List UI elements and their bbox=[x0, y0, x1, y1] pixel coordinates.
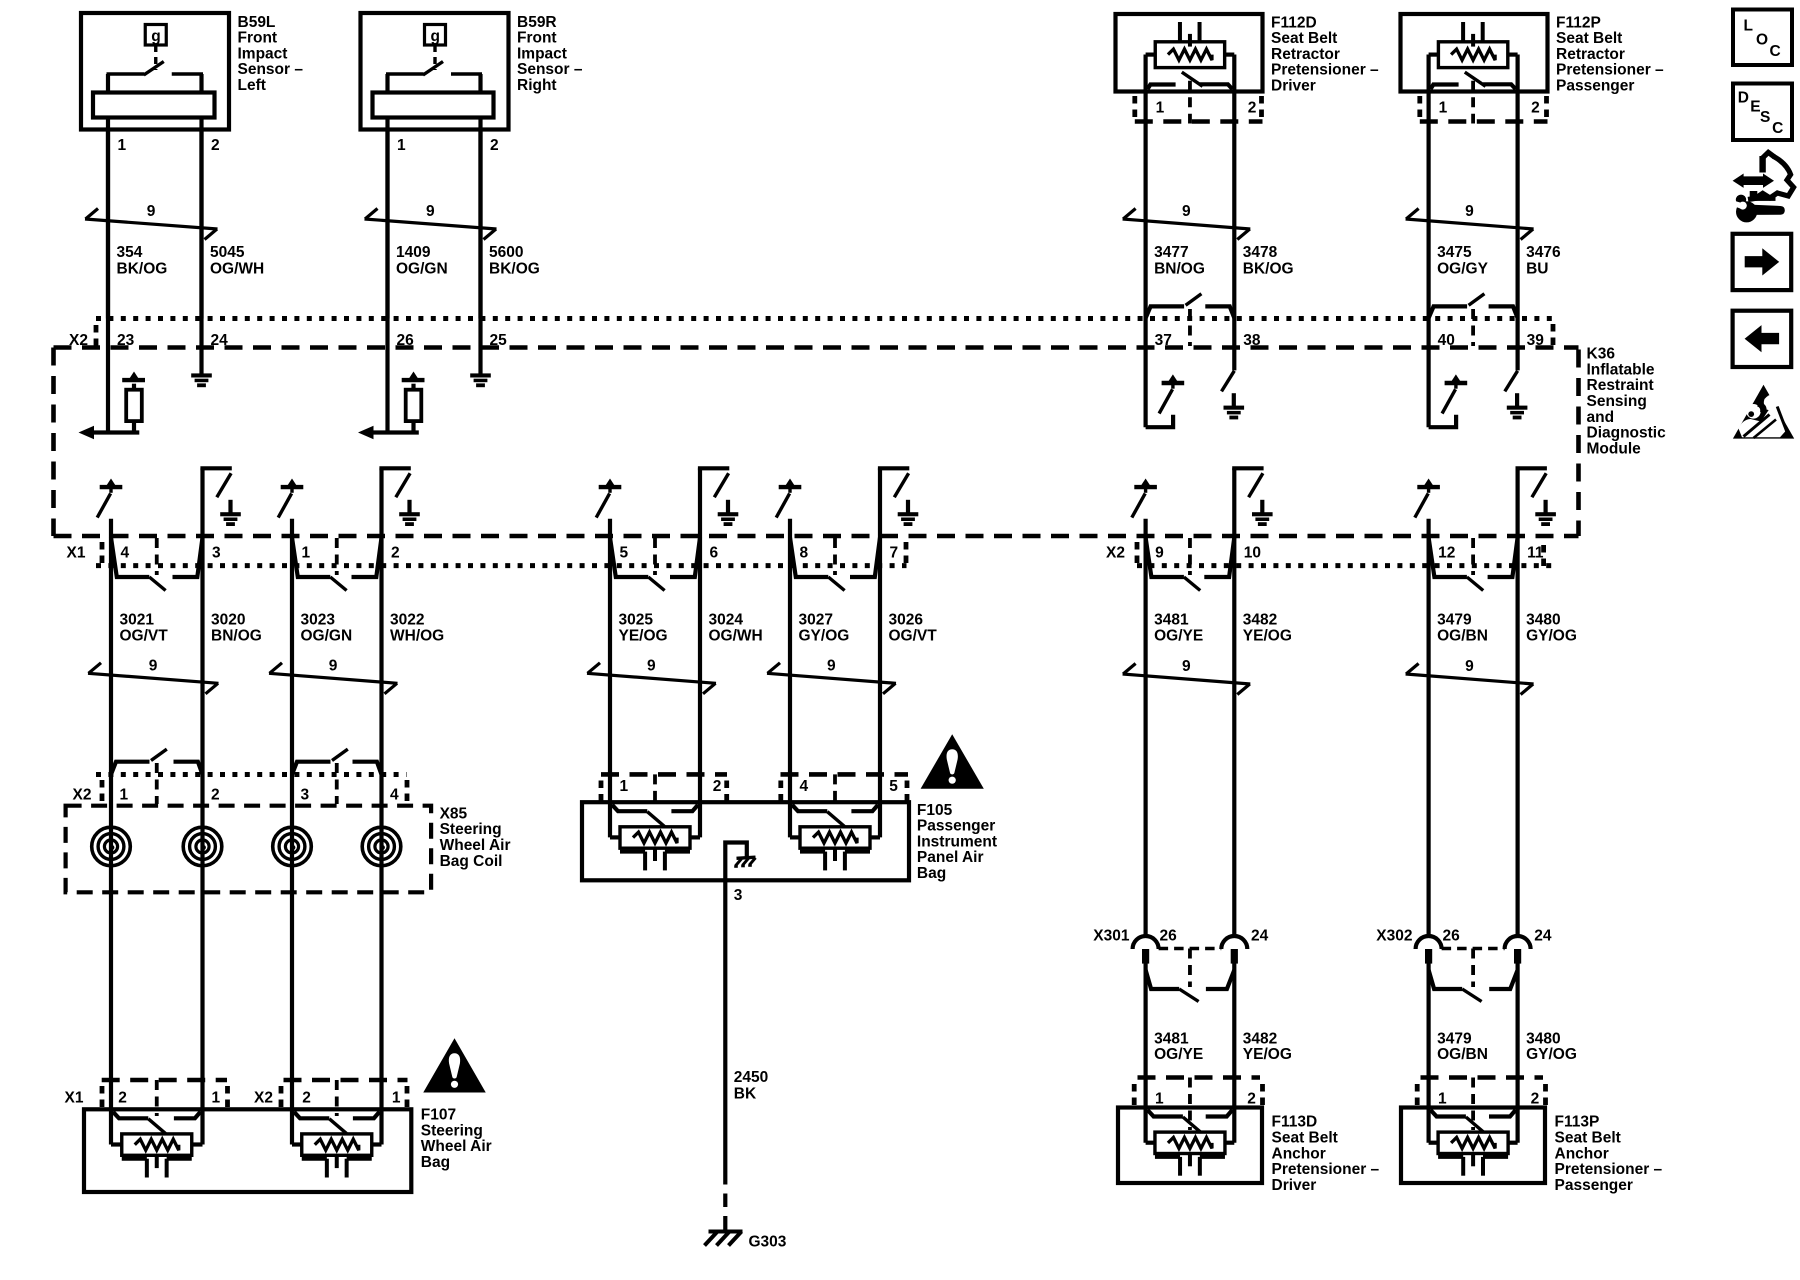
dashed ground lead bbox=[723, 1171, 727, 1233]
wire 3481 OG/YE lower bbox=[1143, 964, 1147, 1143]
B59R dashed actuator link bbox=[433, 45, 436, 70]
svg-text:3026: 3026 bbox=[889, 611, 924, 628]
svg-text:OG/YE: OG/YE bbox=[1154, 628, 1203, 645]
svg-text:YE/OG: YE/OG bbox=[1243, 1046, 1292, 1063]
wire 5045 OG/WH bbox=[199, 130, 203, 362]
F107 mechanical links bbox=[155, 1080, 159, 1116]
svg-text:3477: 3477 bbox=[1154, 244, 1188, 261]
svg-text:2: 2 bbox=[302, 1090, 311, 1107]
svg-text:OG/VT: OG/VT bbox=[120, 628, 169, 645]
mechanical link dashes pins 12-11 bbox=[1471, 538, 1475, 575]
svg-text:4: 4 bbox=[121, 545, 130, 562]
ground at pin 25 bbox=[470, 361, 491, 387]
svg-text:Pretensioner –: Pretensioner – bbox=[1271, 62, 1379, 79]
svg-text:X2: X2 bbox=[73, 787, 92, 804]
warning symbol F107 bbox=[423, 1038, 486, 1092]
wire 354 BK/OG bbox=[106, 130, 110, 433]
seat belt anchor pretensioner F113D box bbox=[1118, 1108, 1262, 1184]
icon arrow left box bbox=[1733, 311, 1792, 367]
svg-text:3479: 3479 bbox=[1437, 1030, 1472, 1047]
connector X1 edge mark left bbox=[100, 542, 105, 564]
svg-text:X1: X1 bbox=[67, 545, 86, 562]
F113P mechanical link bbox=[1471, 1078, 1475, 1131]
svg-text:4: 4 bbox=[390, 787, 399, 804]
shorting clip pins 12-11 bbox=[1429, 538, 1518, 591]
module K36 right border bbox=[1576, 350, 1581, 537]
ground bbox=[1252, 500, 1273, 526]
svg-text:2: 2 bbox=[713, 778, 722, 795]
svg-text:5: 5 bbox=[620, 545, 629, 562]
svg-text:37: 37 bbox=[1155, 332, 1172, 349]
B59L connector bar bbox=[93, 93, 215, 118]
svg-text:O: O bbox=[1756, 31, 1768, 48]
module switch to ground bbox=[700, 468, 729, 497]
warning symbol F105 bbox=[921, 734, 984, 789]
shorting clip pins 4-3 bbox=[111, 538, 203, 591]
svg-text:WH/OG: WH/OG bbox=[390, 628, 444, 645]
F107 squib 2 bbox=[292, 1112, 382, 1178]
svg-text:Sensor –: Sensor – bbox=[238, 61, 304, 78]
svg-text:3022: 3022 bbox=[390, 611, 424, 628]
X85 connector edge marks bbox=[100, 780, 105, 802]
module ground switch at pin 39 bbox=[1505, 371, 1518, 392]
F105 connector dashed lines bbox=[601, 772, 727, 777]
shorting clip X85 pins 3-4 bbox=[292, 749, 382, 774]
wire 3476 BU bbox=[1515, 319, 1519, 371]
svg-text:B59R: B59R bbox=[517, 14, 557, 31]
svg-text:23: 23 bbox=[117, 332, 135, 349]
module switch to feed bbox=[1132, 479, 1157, 518]
svg-text:F105: F105 bbox=[917, 802, 953, 819]
svg-text:3: 3 bbox=[212, 545, 221, 562]
module switch to feed bbox=[97, 479, 122, 518]
ground bbox=[1224, 393, 1245, 419]
svg-text:BN/OG: BN/OG bbox=[211, 628, 262, 645]
svg-text:26: 26 bbox=[397, 332, 415, 349]
svg-text:X2: X2 bbox=[69, 332, 88, 349]
svg-text:3481: 3481 bbox=[1154, 1030, 1189, 1047]
X301 shorting clip bbox=[1146, 970, 1235, 1002]
mechanical link dashes pins 5-6 bbox=[653, 538, 657, 575]
svg-text:Retractor: Retractor bbox=[1556, 46, 1625, 63]
svg-text:2: 2 bbox=[1248, 100, 1257, 117]
connector X2 bottom edge mark left bbox=[1135, 542, 1140, 564]
svg-text:Panel Air: Panel Air bbox=[917, 849, 984, 866]
wire 3022 WH/OG bbox=[379, 468, 383, 1144]
svg-text:24: 24 bbox=[1251, 928, 1269, 945]
svg-text:Passenger: Passenger bbox=[917, 818, 995, 835]
module resistor and feed for pin 23 bbox=[79, 372, 146, 440]
svg-text:9: 9 bbox=[1465, 658, 1474, 675]
connector X2 (top row) right edge mark bbox=[1551, 324, 1556, 346]
X302 dashed connector line bbox=[1442, 947, 1505, 951]
X302 terminal 26 bbox=[1416, 936, 1442, 949]
svg-text:3: 3 bbox=[734, 887, 743, 904]
F105 connector mechanical links bbox=[653, 774, 657, 806]
B59R internal wire 2 bbox=[478, 74, 482, 319]
wire gauge marker 9 bbox=[269, 658, 398, 694]
svg-text:X1: X1 bbox=[65, 1090, 84, 1107]
svg-text:2: 2 bbox=[118, 1090, 127, 1107]
svg-text:Left: Left bbox=[238, 77, 266, 94]
module switch to ground bbox=[382, 468, 411, 497]
svg-text:OG/WH: OG/WH bbox=[210, 260, 264, 277]
svg-text:2: 2 bbox=[490, 137, 499, 154]
svg-text:C: C bbox=[1772, 120, 1783, 137]
svg-text:Anchor: Anchor bbox=[1555, 1145, 1609, 1162]
svg-text:11: 11 bbox=[1527, 545, 1544, 562]
svg-text:2: 2 bbox=[1531, 1091, 1540, 1108]
F113D squib bbox=[1146, 1110, 1235, 1176]
svg-text:Diagnostic: Diagnostic bbox=[1587, 425, 1667, 442]
svg-text:BN/OG: BN/OG bbox=[1154, 260, 1205, 277]
svg-text:354: 354 bbox=[117, 244, 143, 261]
svg-text:12: 12 bbox=[1438, 545, 1455, 562]
svg-text:1409: 1409 bbox=[396, 244, 431, 261]
module switch to feed bbox=[1442, 374, 1467, 413]
svg-text:2: 2 bbox=[211, 137, 220, 154]
icon DESC box bbox=[1733, 84, 1792, 141]
svg-text:OG/WH: OG/WH bbox=[709, 628, 763, 645]
module K36 top border bbox=[54, 345, 1579, 350]
svg-text:L: L bbox=[1744, 18, 1753, 35]
steering wheel air bag F107 box bbox=[84, 1109, 411, 1192]
svg-text:9: 9 bbox=[827, 658, 836, 675]
coil bbox=[183, 827, 222, 866]
mechanical link dashes pins 4-3 bbox=[155, 538, 159, 575]
module switch to feed bbox=[278, 479, 303, 518]
module feed switch at pin 40 bbox=[1429, 415, 1457, 428]
mechanical link dashes pins 40-39 bbox=[1471, 309, 1475, 346]
svg-text:1: 1 bbox=[392, 1090, 401, 1107]
F112D wire 1 bbox=[1143, 55, 1147, 319]
icon connector tool (arrows and wrench) bbox=[1733, 152, 1794, 222]
svg-text:5045: 5045 bbox=[210, 244, 245, 261]
wire 3025 YE/OG bbox=[608, 519, 612, 838]
svg-text:X301: X301 bbox=[1093, 928, 1130, 945]
F107 connector edge marks bbox=[100, 1086, 105, 1108]
svg-text:7: 7 bbox=[890, 545, 899, 562]
svg-text:Pretensioner –: Pretensioner – bbox=[1556, 62, 1664, 79]
wire 3482 YE/OG upper bbox=[1232, 468, 1236, 936]
wire gauge marker 9 bbox=[1123, 658, 1251, 694]
svg-text:Front: Front bbox=[238, 30, 278, 47]
svg-text:3475: 3475 bbox=[1437, 244, 1472, 261]
wire 3481 OG/YE upper bbox=[1143, 519, 1147, 937]
svg-text:Seat Belt: Seat Belt bbox=[1271, 30, 1337, 47]
shorting clip pins 40-39 bbox=[1429, 294, 1518, 318]
svg-text:25: 25 bbox=[490, 332, 508, 349]
connector X1 edge mark right bbox=[904, 542, 909, 564]
shorting clip X85 pins 1-2 bbox=[111, 749, 203, 774]
svg-text:Pretensioner –: Pretensioner – bbox=[1555, 1161, 1663, 1178]
wire 2450 BK bbox=[723, 880, 727, 1171]
svg-text:26: 26 bbox=[1443, 928, 1461, 945]
svg-text:Module: Module bbox=[1587, 440, 1642, 457]
svg-text:g: g bbox=[431, 28, 440, 45]
svg-text:3480: 3480 bbox=[1526, 1030, 1560, 1047]
svg-text:OG/GY: OG/GY bbox=[1437, 260, 1488, 277]
wire 3475 OG/GY bbox=[1426, 319, 1430, 428]
svg-text:BK/OG: BK/OG bbox=[117, 260, 168, 277]
wire gauge marker 9 bbox=[1406, 658, 1534, 694]
svg-text:9: 9 bbox=[1155, 545, 1164, 562]
svg-text:OG/BN: OG/BN bbox=[1437, 1046, 1488, 1063]
F112P wire 2 bbox=[1515, 55, 1519, 319]
F107 squib 1 bbox=[111, 1112, 203, 1178]
module resistor and feed for pin 26 bbox=[358, 372, 425, 440]
svg-text:1: 1 bbox=[120, 787, 129, 804]
svg-text:X2: X2 bbox=[254, 1090, 273, 1107]
svg-text:D: D bbox=[1738, 89, 1749, 106]
X301 dashed connector line bbox=[1159, 947, 1222, 951]
svg-text:3480: 3480 bbox=[1526, 611, 1560, 628]
svg-text:g: g bbox=[151, 28, 160, 45]
svg-text:S: S bbox=[1760, 109, 1770, 126]
svg-text:24: 24 bbox=[211, 332, 229, 349]
svg-text:and: and bbox=[1587, 409, 1615, 426]
module switch to feed bbox=[1159, 374, 1184, 413]
svg-text:9: 9 bbox=[426, 203, 435, 220]
svg-text:3482: 3482 bbox=[1243, 611, 1277, 628]
svg-text:X85: X85 bbox=[440, 805, 468, 822]
wire gauge marker 9 bbox=[1123, 203, 1251, 239]
ground bbox=[220, 500, 241, 526]
svg-text:Sensing: Sensing bbox=[1587, 393, 1647, 410]
F105 internal ground wire pin 3 bbox=[725, 843, 747, 881]
wire 3021 OG/VT bbox=[109, 519, 113, 1145]
svg-text:26: 26 bbox=[1160, 928, 1178, 945]
wire gauge marker 9 bbox=[767, 658, 896, 694]
svg-text:BK/OG: BK/OG bbox=[1243, 260, 1294, 277]
svg-text:Seat Belt: Seat Belt bbox=[1555, 1130, 1621, 1147]
connector X1 (bottom row) dotted line bbox=[96, 563, 907, 568]
svg-text:4: 4 bbox=[800, 778, 809, 795]
svg-text:40: 40 bbox=[1438, 332, 1455, 349]
svg-text:3021: 3021 bbox=[120, 611, 155, 628]
ground G303 bbox=[705, 1232, 743, 1246]
svg-text:GY/OG: GY/OG bbox=[1526, 628, 1577, 645]
wire gauge marker 9 bbox=[587, 658, 716, 694]
svg-text:Right: Right bbox=[517, 77, 557, 94]
svg-text:Impact: Impact bbox=[517, 45, 567, 62]
svg-text:6: 6 bbox=[710, 545, 719, 562]
module switch to ground bbox=[1518, 468, 1547, 497]
front impact sensor B59L box bbox=[81, 13, 229, 130]
svg-text:X2: X2 bbox=[1106, 545, 1125, 562]
svg-text:Driver: Driver bbox=[1271, 78, 1316, 95]
connector X2 of X85 dotted line bbox=[96, 772, 407, 777]
wire 3478 BK/OG bbox=[1232, 319, 1236, 371]
svg-text:3478: 3478 bbox=[1243, 244, 1278, 261]
svg-text:1: 1 bbox=[302, 545, 311, 562]
svg-text:Anchor: Anchor bbox=[1272, 1145, 1326, 1162]
svg-text:F113P: F113P bbox=[1555, 1114, 1600, 1131]
shorting clip pins 8-7 bbox=[790, 538, 880, 591]
shorting clip pins 5-6 bbox=[610, 538, 700, 591]
svg-text:F107: F107 bbox=[421, 1107, 456, 1124]
ground bbox=[718, 500, 739, 526]
F107 connector dashed lines bbox=[102, 1078, 227, 1083]
B59L internal wire 2 bbox=[199, 74, 203, 319]
ground bbox=[1535, 500, 1556, 526]
svg-text:1: 1 bbox=[397, 137, 406, 154]
svg-text:F113D: F113D bbox=[1272, 1114, 1318, 1131]
svg-text:24: 24 bbox=[1534, 928, 1552, 945]
F113P connector dashed line bbox=[1421, 1075, 1544, 1080]
svg-text:Bag: Bag bbox=[421, 1154, 450, 1171]
svg-text:Passenger: Passenger bbox=[1556, 78, 1634, 95]
svg-text:9: 9 bbox=[1182, 203, 1191, 220]
wire 3026 OG/VT bbox=[878, 468, 882, 837]
B59R internal wire 1 bbox=[385, 74, 389, 319]
wire gauge marker 9 bbox=[1406, 203, 1534, 239]
X302 terminal 24 bbox=[1505, 936, 1531, 949]
B59L sensor switch bbox=[107, 72, 145, 75]
F112D pretensioner squib bbox=[1146, 22, 1235, 89]
svg-text:OG/GN: OG/GN bbox=[301, 628, 353, 645]
svg-text:Steering: Steering bbox=[421, 1122, 483, 1139]
F112P connector dashed link bbox=[1471, 81, 1475, 124]
svg-text:GY/OG: GY/OG bbox=[799, 628, 850, 645]
svg-text:9: 9 bbox=[1465, 203, 1474, 220]
svg-text:2: 2 bbox=[1247, 1091, 1256, 1108]
svg-text:Wheel Air: Wheel Air bbox=[421, 1138, 492, 1155]
F112P pretensioner squib bbox=[1429, 22, 1518, 89]
wire 3482 YE/OG lower bbox=[1232, 964, 1236, 1143]
svg-text:3024: 3024 bbox=[709, 611, 744, 628]
F112P wire 1 bbox=[1426, 55, 1430, 319]
svg-text:Seat Belt: Seat Belt bbox=[1272, 1130, 1338, 1147]
svg-text:1: 1 bbox=[1156, 100, 1165, 117]
F112D connector edge marks bbox=[1132, 96, 1137, 118]
wire 3480 GY/OG lower bbox=[1515, 964, 1519, 1143]
svg-text:F112D: F112D bbox=[1271, 14, 1317, 31]
svg-text:1: 1 bbox=[1438, 1091, 1447, 1108]
svg-text:3027: 3027 bbox=[799, 611, 833, 628]
svg-text:3482: 3482 bbox=[1243, 1030, 1277, 1047]
svg-text:Inflatable: Inflatable bbox=[1587, 361, 1655, 378]
mechanical link dashes pins 8-7 bbox=[833, 538, 837, 575]
svg-text:1: 1 bbox=[1155, 1091, 1164, 1108]
module K36 bottom border bbox=[54, 534, 1579, 539]
wire 3027 GY/OG bbox=[788, 519, 792, 838]
svg-text:3025: 3025 bbox=[619, 611, 654, 628]
svg-text:2450: 2450 bbox=[734, 1069, 768, 1086]
svg-text:GY/OG: GY/OG bbox=[1526, 1046, 1577, 1063]
svg-text:8: 8 bbox=[800, 545, 809, 562]
ground bbox=[898, 500, 919, 526]
coil bbox=[92, 827, 131, 866]
svg-text:OG/BN: OG/BN bbox=[1437, 628, 1488, 645]
F112D connector dashed link bbox=[1188, 81, 1192, 124]
svg-text:Seat Belt: Seat Belt bbox=[1556, 30, 1622, 47]
B59R accelerometer g symbol bbox=[425, 25, 446, 46]
connector X2 (top row) edge mark bbox=[94, 325, 99, 347]
F113D connector edge marks bbox=[1132, 1084, 1137, 1106]
svg-text:Retractor: Retractor bbox=[1271, 46, 1340, 63]
X301 mechanical link bbox=[1188, 949, 1192, 988]
seat belt retractor pretensioner F112D box bbox=[1116, 14, 1263, 92]
svg-text:C: C bbox=[1770, 43, 1781, 60]
svg-text:Impact: Impact bbox=[238, 45, 288, 62]
svg-text:3479: 3479 bbox=[1437, 611, 1472, 628]
svg-text:38: 38 bbox=[1243, 332, 1261, 349]
ground bbox=[1507, 393, 1528, 419]
module switch to feed bbox=[776, 479, 801, 518]
X85 steering wheel air bag coil dashed box bbox=[66, 806, 432, 893]
mechanical link dashes pins 1-2 bbox=[335, 538, 339, 575]
mechanical link dashes pins 37-38 bbox=[1188, 309, 1192, 346]
module ground switch at pin 38 bbox=[1222, 371, 1235, 392]
svg-text:BK: BK bbox=[734, 1085, 757, 1102]
svg-text:BK/OG: BK/OG bbox=[489, 260, 540, 277]
svg-text:OG/YE: OG/YE bbox=[1154, 1046, 1203, 1063]
ground bbox=[399, 500, 420, 526]
svg-text:YE/OG: YE/OG bbox=[1243, 628, 1292, 645]
svg-text:2: 2 bbox=[211, 787, 220, 804]
X301 terminal 26 bbox=[1133, 936, 1159, 949]
svg-text:1: 1 bbox=[620, 778, 629, 795]
B59L internal wire 1 bbox=[106, 74, 110, 319]
svg-text:YE/OG: YE/OG bbox=[619, 628, 668, 645]
wire 3024 OG/WH bbox=[698, 468, 702, 837]
F113P squib bbox=[1429, 1110, 1518, 1176]
svg-text:1: 1 bbox=[1439, 100, 1448, 117]
svg-text:B59L: B59L bbox=[238, 14, 276, 31]
shorting clip pins 1-2 bbox=[292, 538, 382, 591]
coil bbox=[273, 827, 312, 866]
connector X2 (bottom row right) dotted line bbox=[1137, 563, 1552, 568]
svg-text:Wheel Air: Wheel Air bbox=[440, 837, 511, 854]
svg-text:Passenger: Passenger bbox=[1555, 1177, 1633, 1194]
svg-text:OG/GN: OG/GN bbox=[396, 260, 448, 277]
svg-text:BU: BU bbox=[1526, 260, 1548, 277]
B59R connector bar bbox=[373, 93, 494, 118]
svg-text:9: 9 bbox=[147, 203, 156, 220]
wire 3480 GY/OG upper bbox=[1515, 468, 1519, 936]
F112P connector bottom dashed line bbox=[1420, 119, 1548, 124]
F113D mechanical link bbox=[1188, 1078, 1192, 1131]
connector X2 bottom edge mark right bbox=[1541, 545, 1546, 567]
svg-text:5600: 5600 bbox=[489, 244, 523, 261]
svg-text:Instrument: Instrument bbox=[917, 833, 997, 850]
svg-text:2: 2 bbox=[391, 545, 400, 562]
seat belt anchor pretensioner F113P box bbox=[1401, 1108, 1545, 1184]
svg-text:9: 9 bbox=[149, 658, 158, 675]
icon LOC box bbox=[1733, 10, 1792, 66]
svg-text:Restraint: Restraint bbox=[1587, 377, 1654, 394]
B59L dashed actuator link bbox=[154, 45, 157, 70]
svg-text:39: 39 bbox=[1527, 332, 1545, 349]
ground at pin 24 bbox=[191, 361, 212, 387]
module switch to feed bbox=[596, 479, 621, 518]
wire 3479 OG/BN lower bbox=[1426, 964, 1430, 1143]
connector X2 (top row) dotted line bbox=[96, 316, 1552, 321]
wire gauge marker 9 bbox=[85, 203, 218, 239]
svg-text:1: 1 bbox=[212, 1090, 221, 1107]
wire 3479 OG/BN upper bbox=[1426, 519, 1430, 937]
svg-text:X302: X302 bbox=[1376, 928, 1412, 945]
svg-text:G303: G303 bbox=[749, 1234, 787, 1251]
svg-text:Bag Coil: Bag Coil bbox=[440, 853, 503, 870]
F113D connector dashed line bbox=[1138, 1075, 1261, 1080]
wire gauge marker 9 bbox=[365, 203, 497, 239]
icon arrow right box bbox=[1733, 234, 1792, 290]
svg-text:10: 10 bbox=[1244, 545, 1261, 562]
svg-text:Steering: Steering bbox=[440, 821, 502, 838]
svg-text:E: E bbox=[1750, 99, 1760, 116]
